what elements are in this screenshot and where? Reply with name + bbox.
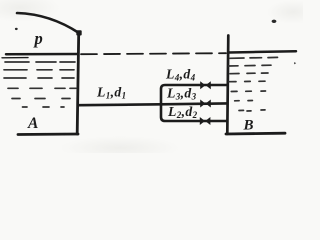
svg-text:A: A	[27, 115, 38, 132]
svg-text:p: p	[33, 29, 43, 48]
svg-text:B: B	[243, 118, 254, 134]
